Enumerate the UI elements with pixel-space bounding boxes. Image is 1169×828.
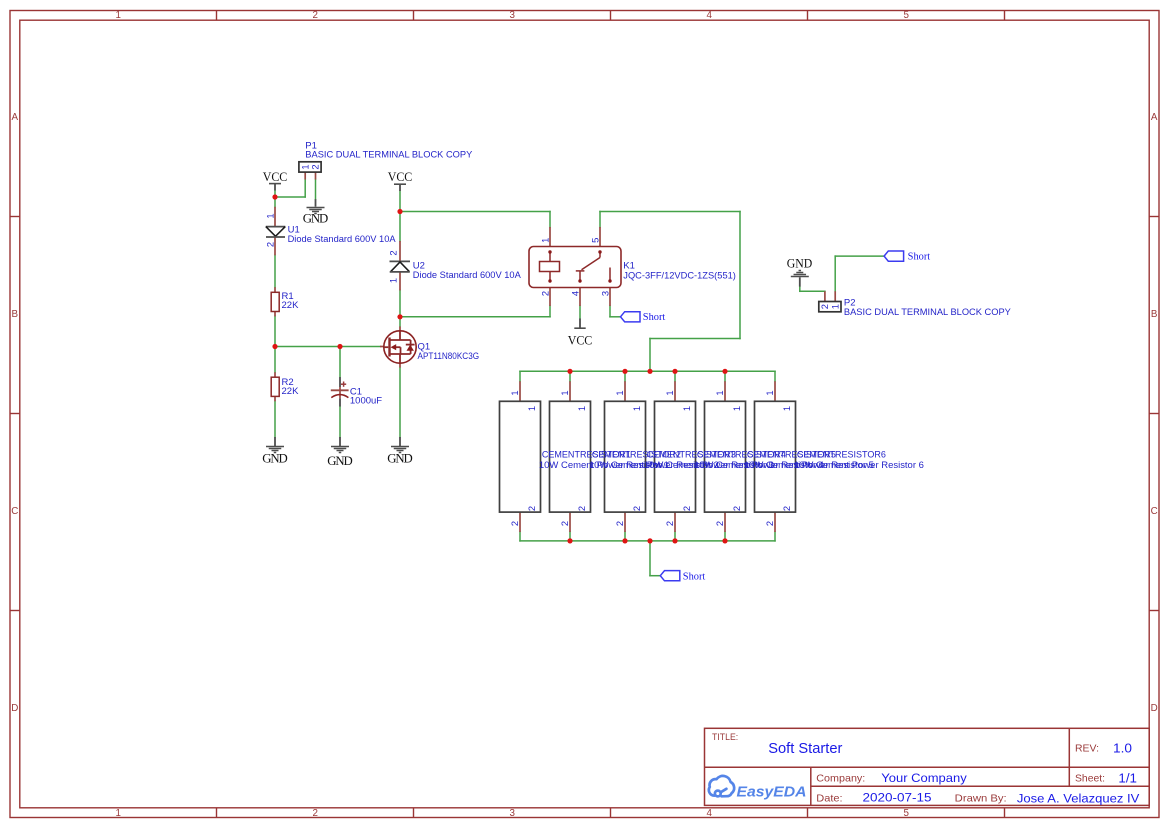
svg-text:BASIC DUAL TERMINAL BLOCK COPY: BASIC DUAL TERMINAL BLOCK COPY <box>305 150 473 161</box>
svg-text:4: 4 <box>706 10 712 21</box>
svg-text:Short: Short <box>643 312 666 323</box>
svg-text:2: 2 <box>764 521 775 526</box>
svg-text:VCC: VCC <box>568 333 593 347</box>
svg-text:GND: GND <box>327 454 353 468</box>
svg-text:1.0: 1.0 <box>1113 740 1132 755</box>
svg-text:1: 1 <box>576 406 587 411</box>
svg-text:GND: GND <box>787 256 813 270</box>
svg-text:1: 1 <box>764 390 775 395</box>
svg-text:1: 1 <box>509 390 520 395</box>
svg-text:1: 1 <box>115 10 120 21</box>
svg-text:2: 2 <box>576 506 587 511</box>
svg-text:2: 2 <box>664 521 675 526</box>
svg-text:1: 1 <box>265 213 276 218</box>
svg-text:22K: 22K <box>282 386 300 397</box>
svg-text:Diode Standard 600V 10A: Diode Standard 600V 10A <box>413 270 522 281</box>
svg-text:JQC-3FF/12VDC-1ZS(551): JQC-3FF/12VDC-1ZS(551) <box>623 270 736 281</box>
svg-text:1: 1 <box>681 406 692 411</box>
svg-text:C: C <box>1151 506 1158 517</box>
svg-text:5: 5 <box>903 10 909 21</box>
svg-text:1: 1 <box>731 406 742 411</box>
svg-text:Company:: Company: <box>816 774 865 785</box>
svg-text:VCC: VCC <box>388 170 413 184</box>
svg-text:D: D <box>1151 703 1158 714</box>
svg-text:5: 5 <box>590 238 601 243</box>
svg-text:2: 2 <box>781 506 792 511</box>
svg-text:CEMENTRESISTOR6: CEMENTRESISTOR6 <box>797 448 886 459</box>
svg-text:2: 2 <box>312 808 317 819</box>
svg-text:2: 2 <box>265 242 276 247</box>
svg-text:Your Company: Your Company <box>881 771 967 785</box>
svg-text:2: 2 <box>310 164 321 169</box>
svg-text:1: 1 <box>540 238 551 243</box>
svg-text:A: A <box>1151 112 1158 123</box>
svg-text:EasyEDA: EasyEDA <box>737 784 807 801</box>
svg-text:2: 2 <box>614 521 625 526</box>
svg-text:10W Cement Power Resistor 6: 10W Cement Power Resistor 6 <box>794 459 924 470</box>
svg-text:4: 4 <box>706 808 712 819</box>
svg-text:22K: 22K <box>282 300 300 311</box>
svg-text:1/1: 1/1 <box>1118 772 1137 786</box>
svg-text:2: 2 <box>731 506 742 511</box>
svg-text:2: 2 <box>526 506 537 511</box>
svg-text:1: 1 <box>388 278 399 283</box>
svg-text:1: 1 <box>614 390 625 395</box>
svg-text:D: D <box>11 703 18 714</box>
svg-text:1: 1 <box>115 808 120 819</box>
svg-text:5: 5 <box>903 808 909 819</box>
svg-text:1: 1 <box>526 406 537 411</box>
svg-text:2: 2 <box>312 10 317 21</box>
svg-text:Date:: Date: <box>816 793 842 804</box>
svg-text:Short: Short <box>683 572 706 583</box>
svg-text:2: 2 <box>631 506 642 511</box>
svg-text:3: 3 <box>509 808 515 819</box>
svg-text:GND: GND <box>387 452 413 466</box>
svg-text:Diode Standard 600V 10A: Diode Standard 600V 10A <box>288 234 397 245</box>
svg-text:1000uF: 1000uF <box>350 395 382 406</box>
svg-text:2: 2 <box>559 521 570 526</box>
svg-text:1: 1 <box>664 390 675 395</box>
svg-text:4: 4 <box>570 291 581 296</box>
svg-text:3: 3 <box>600 291 611 296</box>
svg-text:1: 1 <box>829 304 840 309</box>
svg-text:1: 1 <box>631 406 642 411</box>
svg-text:C: C <box>11 506 18 517</box>
svg-text:A: A <box>12 112 19 123</box>
svg-text:1: 1 <box>781 406 792 411</box>
svg-text:BASIC DUAL TERMINAL BLOCK COPY: BASIC DUAL TERMINAL BLOCK COPY <box>844 307 1012 318</box>
svg-text:Soft Starter: Soft Starter <box>768 740 842 757</box>
svg-text:GND: GND <box>303 212 329 226</box>
svg-text:B: B <box>1151 309 1158 320</box>
svg-text:2: 2 <box>540 291 551 296</box>
svg-text:2: 2 <box>388 250 399 255</box>
svg-text:Drawn By:: Drawn By: <box>955 794 1007 805</box>
svg-text:2: 2 <box>681 506 692 511</box>
svg-text:APT11N80KC3G: APT11N80KC3G <box>418 351 480 362</box>
svg-text:Short: Short <box>908 252 931 263</box>
svg-text:VCC: VCC <box>263 170 288 184</box>
svg-text:2020-07-15: 2020-07-15 <box>863 791 932 805</box>
svg-text:3: 3 <box>509 10 515 21</box>
svg-text:Jose A. Velazquez IV: Jose A. Velazquez IV <box>1017 792 1140 806</box>
svg-text:B: B <box>12 309 19 320</box>
svg-text:1: 1 <box>559 390 570 395</box>
svg-text:GND: GND <box>262 452 288 466</box>
svg-text:1: 1 <box>714 390 725 395</box>
svg-text:Sheet:: Sheet: <box>1075 774 1105 785</box>
svg-text:2: 2 <box>509 521 520 526</box>
svg-text:2: 2 <box>714 521 725 526</box>
svg-text:TITLE:: TITLE: <box>712 732 738 743</box>
svg-text:REV:: REV: <box>1075 744 1099 755</box>
